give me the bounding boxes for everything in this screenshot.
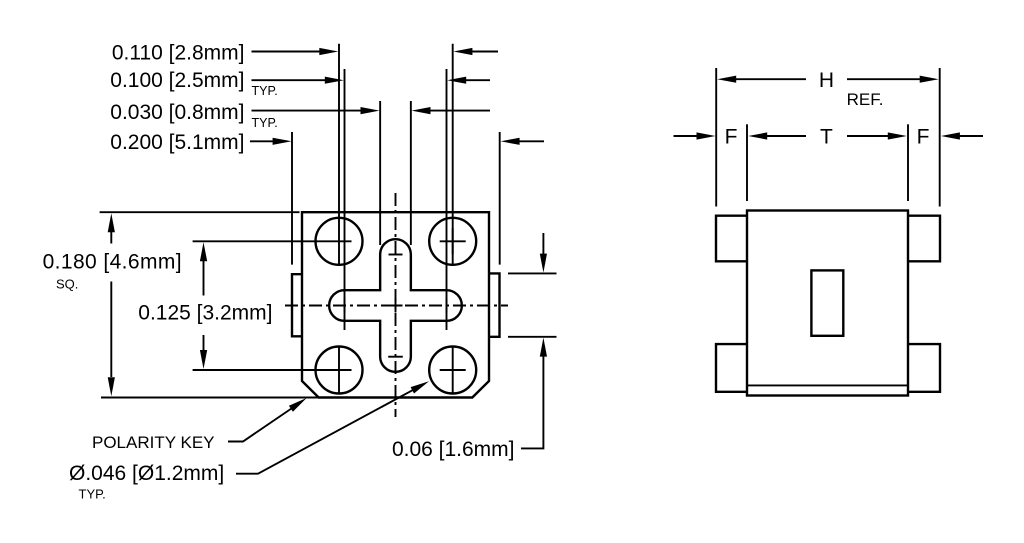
slot center tick	[389, 299, 403, 313]
extension line 0.06 top (tab top)	[508, 272, 557, 274]
dimension T line with arrows	[767, 135, 807, 137]
crosshair hole bottom-left	[338, 347, 340, 394]
extension line 0.06 bottom (tab bottom)	[508, 336, 557, 338]
extension line 0.200 right	[499, 132, 501, 265]
hole bottom-right	[429, 347, 476, 394]
extension line 0.030 right	[410, 101, 412, 245]
extension line 0.030 left	[379, 101, 381, 245]
slot cap tick left	[344, 299, 346, 313]
diameter 0.046 leader	[236, 389, 414, 473]
left side tab	[292, 274, 302, 336]
svg-text:SQ.: SQ.	[56, 276, 78, 291]
cross slot outline	[329, 239, 462, 372]
extension line 0.125 top (through top-left hole center)	[193, 240, 352, 242]
part outline plan view (square pad with chamfered bottom corners)	[302, 212, 489, 397]
svg-text:F: F	[917, 126, 930, 149]
centerline horizontal (dash-dot)	[285, 305, 508, 307]
extension line H right	[939, 68, 941, 207]
svg-text:0.06 [1.6mm]: 0.06 [1.6mm]	[392, 438, 515, 461]
side view tab bottom-right	[908, 344, 940, 392]
crosshair hole top-right	[440, 228, 466, 254]
dimension F left arrow	[674, 135, 698, 137]
svg-text:0.110 [2.8mm]: 0.110 [2.8mm]	[112, 41, 245, 64]
extension line T left (body edge)	[746, 124, 748, 201]
extension line 0.100 right	[446, 69, 448, 330]
hole bottom-left	[316, 347, 363, 394]
svg-text:T: T	[820, 126, 833, 149]
hole top-right	[429, 218, 476, 265]
centerline vertical (dash-dot)	[395, 193, 397, 417]
dimension 0.110 leader left	[252, 51, 321, 53]
right side tab	[489, 273, 500, 336]
svg-text:0.100 [2.5mm]: 0.100 [2.5mm]	[110, 69, 244, 92]
side view actuator rectangle	[811, 270, 843, 335]
dimension 0.06 up arrow with leader	[521, 356, 543, 448]
svg-text:F: F	[725, 126, 738, 149]
dimension 0.06 down arrow	[542, 233, 544, 255]
dimension 0.030 leader left	[252, 110, 362, 112]
dimension 0.200 leader left	[250, 140, 274, 142]
crosshair hole bottom-right	[440, 347, 466, 394]
dimension 0.200 leader right	[519, 140, 544, 142]
svg-text:0.030 [0.8mm]: 0.030 [0.8mm]	[110, 101, 244, 124]
extension line 0.100 left	[344, 69, 346, 330]
extension line 0.110 left (through top-left hole)	[338, 44, 340, 266]
extension line 0.125 bottom (through bottom-left hole center)	[193, 369, 352, 371]
dimension 0.180 vertical line with arrows (broken at text)	[110, 231, 112, 377]
extension line 0.180 top	[100, 211, 300, 213]
dimension 0.125 vertical line with arrows (broken at text)	[203, 260, 205, 351]
svg-text:H: H	[819, 69, 834, 92]
dimension 0.030 leader right	[430, 110, 490, 112]
svg-text:REF.: REF.	[847, 90, 884, 109]
side view body	[747, 211, 908, 396]
hole top-left	[316, 218, 363, 265]
dimension 0.110 leader right	[472, 51, 498, 53]
svg-text:0.125 [3.2mm]: 0.125 [3.2mm]	[138, 302, 272, 325]
svg-text:TYP.: TYP.	[79, 486, 106, 501]
svg-text:Ø.046 [Ø1.2mm]: Ø.046 [Ø1.2mm]	[69, 462, 224, 485]
dimension H line with arrows	[735, 78, 806, 80]
side view bottom thick line	[747, 384, 908, 386]
dimension 0.100 leader right	[466, 79, 491, 81]
extension line 0.110 right (through top-right hole)	[452, 44, 454, 266]
side view tab top-right	[908, 216, 940, 262]
extension line 0.200 left	[291, 132, 293, 265]
dimension 0.100 leader left	[252, 79, 326, 81]
extension line 0.180 bottom	[101, 397, 319, 399]
svg-text:TYP.: TYP.	[252, 84, 278, 98]
slot cap tick top	[389, 254, 403, 256]
svg-text:0.180 [4.6mm]: 0.180 [4.6mm]	[43, 250, 182, 273]
svg-text:TYP.: TYP.	[252, 116, 278, 130]
extension line T right (body edge)	[907, 124, 909, 201]
slot cap tick bottom	[388, 356, 403, 358]
svg-text:0.200 [5.1mm]: 0.200 [5.1mm]	[110, 131, 244, 154]
dimension F right arrow	[959, 135, 983, 137]
slot cap tick right	[446, 299, 448, 313]
side view tab bottom-left	[716, 344, 747, 392]
svg-text:POLARITY KEY: POLARITY KEY	[92, 433, 215, 452]
POLARITY KEY leader	[228, 408, 292, 441]
side view tab top-left	[716, 216, 747, 262]
extension line H left	[715, 68, 717, 207]
